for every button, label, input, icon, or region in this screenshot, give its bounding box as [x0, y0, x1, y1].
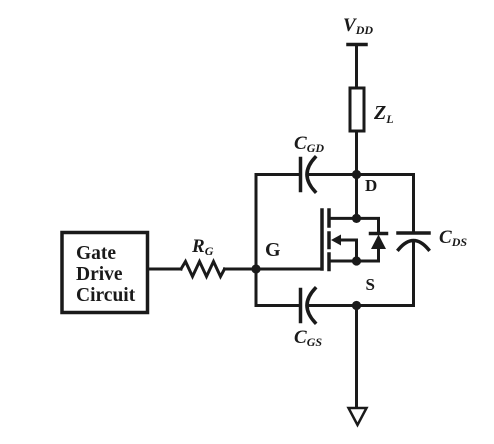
svg-text:G: G [265, 239, 281, 261]
capacitor Cds curved plate [399, 241, 429, 250]
wire Vdd to ZL [355, 45, 358, 89]
wire gate drive to resistor [149, 268, 182, 271]
junction source-diode [352, 256, 361, 265]
diode triangle [371, 235, 386, 250]
svg-text:RG: RG [191, 236, 214, 258]
svg-text:S: S [366, 275, 375, 294]
mosfet source lead [329, 260, 357, 263]
mosfet channel bottom segment [327, 254, 331, 270]
wire S to ground [355, 306, 358, 408]
resistor RG zigzag [181, 262, 225, 277]
junction node D [352, 170, 361, 179]
wire resistor to gate [225, 268, 323, 271]
mosfet channel top segment [327, 210, 331, 226]
wire ZL to node D [355, 131, 358, 218]
capacitor Cds straight plate [398, 231, 429, 235]
wire Cds to node S [357, 242, 414, 306]
svg-text:D: D [365, 176, 377, 195]
junction drain-diode [352, 214, 361, 223]
body diode branch wires [357, 218, 379, 233]
mosfet channel middle segment [327, 233, 331, 248]
svg-text:CDS: CDS [439, 227, 467, 249]
Vdd terminal bar [348, 43, 366, 47]
svg-text:Circuit: Circuit [76, 285, 136, 306]
mosfet body arrow head [331, 235, 341, 246]
mosfet drain lead [329, 217, 357, 220]
wire Cgs to node S [309, 304, 357, 307]
gate drive circuit box [62, 233, 148, 313]
capacitor Cgd straight plate [299, 159, 303, 191]
svg-text:VDD: VDD [343, 15, 373, 37]
mosfet body lead [339, 240, 357, 261]
svg-text:CGD: CGD [294, 133, 324, 155]
wire left loop top (Cgd branch, gate side) [256, 175, 301, 306]
wire Cgd to node D [309, 173, 357, 176]
junction node S [352, 301, 361, 310]
svg-text:Drive: Drive [76, 264, 123, 285]
capacitor Cgd curved plate [307, 158, 315, 192]
svg-text:CGS: CGS [294, 327, 322, 349]
mosfet gate bar [320, 210, 324, 269]
load impedance ZL [350, 88, 364, 131]
diode cathode bar [371, 232, 387, 236]
capacitor Cgs curved plate [307, 289, 315, 323]
junction node G [251, 264, 260, 273]
wire right loop (D to Cds) [357, 175, 414, 233]
svg-text:Gate: Gate [76, 243, 116, 264]
capacitor Cgs straight plate [299, 290, 303, 322]
ground symbol triangle [349, 408, 367, 425]
svg-text:ZL: ZL [373, 102, 394, 126]
